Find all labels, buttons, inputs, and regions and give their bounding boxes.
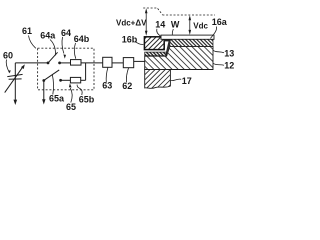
svg-text:13: 13 [224,48,234,58]
svg-text:60: 60 [3,50,13,60]
svg-text:17: 17 [182,76,192,86]
svg-text:65b: 65b [79,94,95,104]
svg-text:63: 63 [102,81,112,91]
svg-text:64b: 64b [74,34,90,44]
svg-text:16a: 16a [212,17,228,27]
svg-text:62: 62 [122,81,132,91]
svg-text:12: 12 [224,61,234,71]
svg-text:64a: 64a [40,30,56,40]
svg-text:16b: 16b [122,35,138,45]
svg-text:W: W [171,20,180,30]
svg-text:65: 65 [66,102,76,112]
svg-text:Vdc: Vdc [193,22,208,31]
svg-text:61: 61 [22,26,32,36]
svg-text:64: 64 [61,28,71,38]
svg-text:Vdc+ΔV: Vdc+ΔV [116,18,147,27]
svg-text:65a: 65a [49,93,65,103]
svg-text:14: 14 [155,20,165,30]
